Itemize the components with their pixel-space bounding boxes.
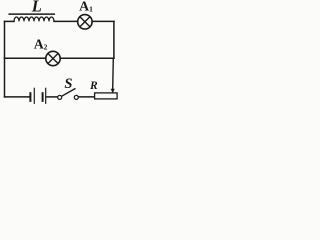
battery cell 2 negative plate <box>42 93 44 101</box>
wire right vertical upper <box>113 21 115 58</box>
lamp A2 cross <box>48 54 58 64</box>
battery cell 1 positive plate <box>33 88 35 103</box>
wire coil to lamp A1 <box>54 20 78 22</box>
lamp A1 circle <box>78 15 92 29</box>
svg-text:L: L <box>31 0 42 16</box>
rheostat R box <box>95 93 118 99</box>
rheostat slider arrow <box>111 89 115 94</box>
switch S right contact <box>74 95 78 99</box>
svg-text:S: S <box>64 76 72 92</box>
node right middle junction <box>113 58 115 60</box>
inductor L coil <box>14 17 54 21</box>
background <box>0 0 120 105</box>
battery cell 2 positive plate <box>45 88 47 103</box>
battery cell 1 negative plate <box>29 93 31 101</box>
switch S lever <box>62 89 75 96</box>
wire middle branch left <box>5 57 46 59</box>
wire bottom-left <box>5 96 30 98</box>
node left middle junction <box>4 58 6 60</box>
switch S left contact <box>58 95 62 99</box>
wire lamp A1 to right corner <box>92 20 114 22</box>
wire switch to rheostat <box>78 96 94 98</box>
lamp A1 cross <box>80 17 90 27</box>
inductor L core bar <box>9 13 54 15</box>
svg-text:R: R <box>89 80 98 92</box>
wire middle branch right <box>60 57 114 59</box>
wire battery to switch <box>46 96 57 98</box>
wire top-left lead <box>5 20 15 22</box>
wire right vertical lower <box>112 58 115 89</box>
lamp A2 circle <box>46 51 60 65</box>
wire left vertical <box>4 21 6 97</box>
